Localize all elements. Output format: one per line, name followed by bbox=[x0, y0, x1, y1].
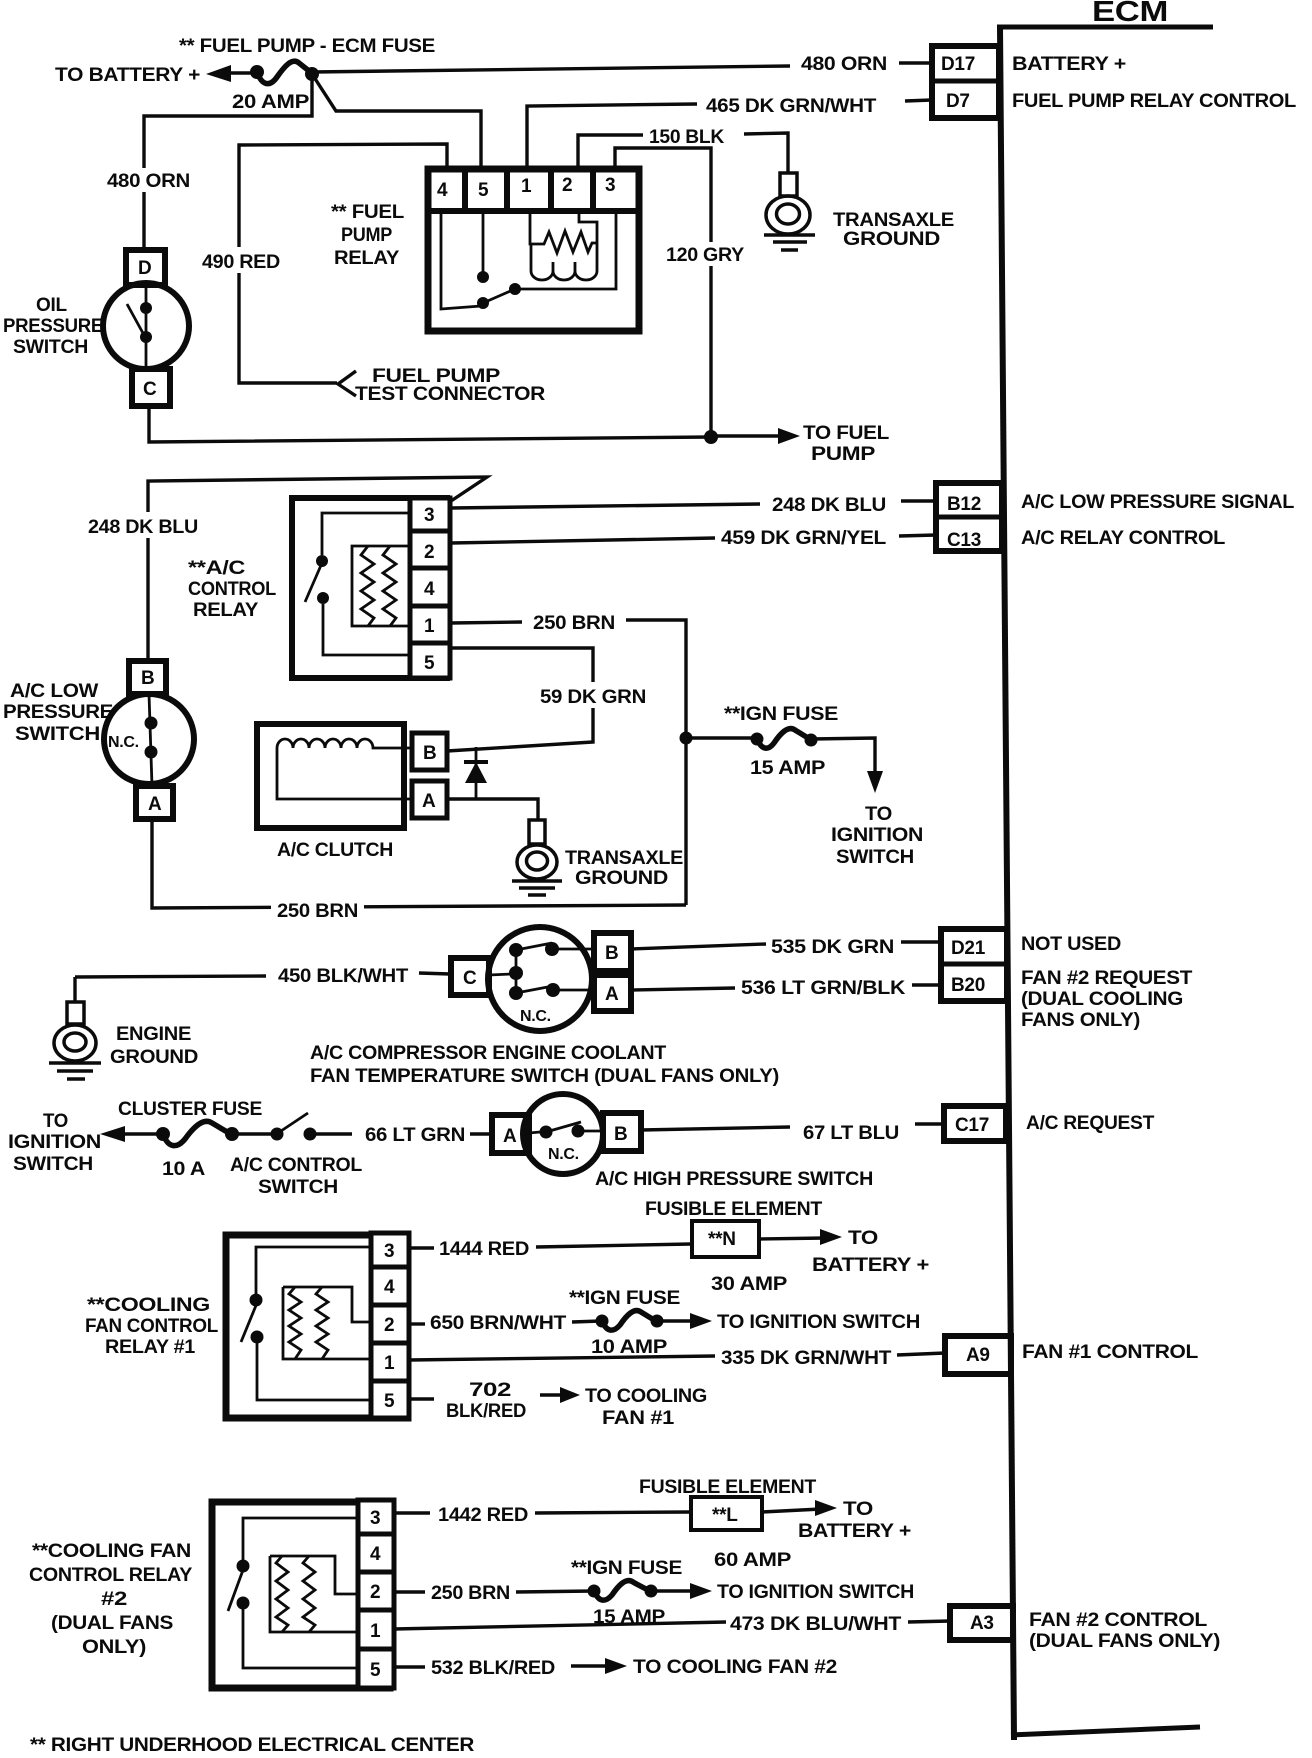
wire 1442 RED to fusible element bbox=[394, 1511, 430, 1514]
svg-text:GROUND: GROUND bbox=[575, 868, 668, 889]
svg-text:A: A bbox=[503, 1126, 517, 1147]
svg-text:CONTROL RELAY: CONTROL RELAY bbox=[29, 1565, 193, 1586]
wire 248 DK BLU from A/C relay pin 3 to low pressure switch B bbox=[148, 477, 487, 658]
fuse F2 IGN FUSE 15 AMP bbox=[751, 733, 764, 746]
ECM connector C17 bbox=[944, 1106, 1006, 1141]
ECM connector D21 / B20 bbox=[938, 929, 1007, 1001]
svg-text:BATTERY +: BATTERY + bbox=[798, 1521, 911, 1542]
svg-text:5: 5 bbox=[424, 653, 435, 674]
A/C low pressure switch bbox=[104, 661, 194, 819]
wire 335 DK GRN/WHT to ECM A9 bbox=[409, 1356, 715, 1360]
svg-text:A/C LOW PRESSURE SIGNAL: A/C LOW PRESSURE SIGNAL bbox=[1021, 492, 1295, 513]
svg-text:GROUND: GROUND bbox=[843, 229, 940, 250]
fuse F5 IGN FUSE 15 AMP bbox=[588, 1585, 601, 1598]
relay K2 internal coil bbox=[352, 546, 410, 626]
svg-text:ECM: ECM bbox=[1092, 0, 1168, 28]
svg-text:D21: D21 bbox=[951, 938, 986, 959]
ECM connector B12 / C13 bbox=[933, 483, 1002, 551]
svg-text:**IGN FUSE: **IGN FUSE bbox=[571, 1558, 682, 1579]
svg-text:536 LT GRN/BLK: 536 LT GRN/BLK bbox=[741, 978, 906, 999]
wire 248 DK BLU to ECM B12 bbox=[451, 504, 760, 508]
wire arrow to ignition switch bbox=[100, 1126, 125, 1142]
wire fuse to relay pin 5 bbox=[312, 74, 481, 168]
cooling fan control relay K3 bbox=[226, 1233, 409, 1418]
svg-text:A: A bbox=[148, 794, 162, 815]
svg-text:2: 2 bbox=[424, 542, 434, 563]
svg-text:A: A bbox=[605, 984, 619, 1005]
transaxle ground (A/C clutch) bbox=[512, 820, 562, 895]
svg-text:1: 1 bbox=[424, 616, 435, 637]
svg-text:1442 RED: 1442 RED bbox=[438, 1505, 528, 1526]
svg-text:**COOLING: **COOLING bbox=[87, 1295, 210, 1316]
svg-text:4: 4 bbox=[437, 180, 448, 201]
svg-text:FAN #2 REQUEST: FAN #2 REQUEST bbox=[1021, 968, 1193, 989]
svg-text:TEST CONNECTOR: TEST CONNECTOR bbox=[355, 384, 546, 405]
svg-text:5: 5 bbox=[384, 1391, 395, 1412]
svg-text:N.C.: N.C. bbox=[548, 1146, 579, 1163]
wire 250 BRN to IGN fuse (fan 2) bbox=[394, 1590, 425, 1593]
svg-text:A/C HIGH PRESSURE SWITCH: A/C HIGH PRESSURE SWITCH bbox=[595, 1169, 873, 1190]
wire 450 BLK/WHT engine ground to switch C bbox=[75, 976, 266, 977]
relay K3 internal switch bbox=[241, 1247, 371, 1400]
svg-text:250 BRN: 250 BRN bbox=[533, 613, 615, 634]
svg-text:GROUND: GROUND bbox=[110, 1047, 198, 1068]
svg-text:20 AMP: 20 AMP bbox=[232, 92, 310, 113]
svg-text:A3: A3 bbox=[970, 1613, 994, 1634]
relay K1 internal switch bbox=[441, 213, 616, 309]
A/C control relay K2 bbox=[292, 498, 450, 678]
transaxle ground (fuel pump) bbox=[764, 173, 815, 250]
svg-text:**IGN FUSE: **IGN FUSE bbox=[569, 1288, 680, 1309]
svg-text:FANS ONLY): FANS ONLY) bbox=[1021, 1010, 1140, 1031]
svg-text:FAN #1 CONTROL: FAN #1 CONTROL bbox=[1022, 1342, 1199, 1363]
svg-text:TO: TO bbox=[865, 804, 892, 825]
wire arrow to cooling fan 1 bbox=[540, 1393, 564, 1396]
svg-text:(DUAL FANS ONLY): (DUAL FANS ONLY) bbox=[1029, 1631, 1220, 1652]
svg-text:A/C CLUTCH: A/C CLUTCH bbox=[277, 840, 393, 861]
svg-text:TO COOLING: TO COOLING bbox=[585, 1386, 707, 1407]
label 248 DK BLU bbox=[84, 512, 204, 538]
fuel pump test connector symbol bbox=[338, 371, 356, 396]
svg-text:IGNITION: IGNITION bbox=[831, 825, 923, 846]
svg-text:PRESSURE: PRESSURE bbox=[3, 702, 113, 723]
wire 150 BLK relay pin 2 to transaxle ground bbox=[578, 135, 643, 168]
wire 480 ORN branch down to oil pressure switch bbox=[144, 74, 312, 249]
svg-text:PUMP: PUMP bbox=[341, 225, 393, 246]
wire clutch A to transaxle ground 2 bbox=[447, 799, 538, 820]
svg-text:2: 2 bbox=[370, 1582, 380, 1603]
svg-text:TO: TO bbox=[43, 1111, 68, 1132]
svg-text:ONLY): ONLY) bbox=[82, 1637, 146, 1658]
svg-text:TO COOLING FAN #2: TO COOLING FAN #2 bbox=[633, 1657, 837, 1678]
svg-text:** FUEL: ** FUEL bbox=[331, 202, 405, 223]
wire 473 DK BLU/WHT to ECM A3 bbox=[394, 1622, 726, 1629]
svg-text:SWITCH: SWITCH bbox=[836, 847, 914, 868]
svg-text:650 BRN/WHT: 650 BRN/WHT bbox=[430, 1313, 567, 1334]
label 59 DK GRN bbox=[536, 682, 650, 708]
svg-text:B20: B20 bbox=[951, 975, 985, 996]
svg-text:A/C LOW: A/C LOW bbox=[10, 681, 98, 702]
fusible element **N bbox=[692, 1221, 759, 1257]
svg-text:59 DK GRN: 59 DK GRN bbox=[540, 687, 646, 708]
svg-text:TO IGNITION SWITCH: TO IGNITION SWITCH bbox=[717, 1582, 914, 1603]
svg-text:3: 3 bbox=[384, 1241, 394, 1262]
svg-text:250 BRN: 250 BRN bbox=[431, 1583, 510, 1604]
svg-text:1: 1 bbox=[521, 176, 532, 197]
wire arrow to fuel pump bbox=[711, 434, 783, 437]
svg-text:SWITCH: SWITCH bbox=[15, 724, 100, 745]
svg-text:473 DK BLU/WHT: 473 DK BLU/WHT bbox=[730, 1614, 902, 1635]
svg-text:ENGINE: ENGINE bbox=[116, 1024, 191, 1045]
svg-text:1: 1 bbox=[384, 1353, 395, 1374]
wire 120 GRY relay pin 3 down to fuel pump junction bbox=[615, 148, 711, 437]
svg-text:PRESSURE: PRESSURE bbox=[3, 316, 103, 337]
svg-text:535 DK GRN: 535 DK GRN bbox=[771, 937, 894, 958]
svg-text:248 DK BLU: 248 DK BLU bbox=[772, 495, 886, 516]
wire arrow to battery bbox=[206, 65, 231, 82]
wire arrow to battery (fan 2) bbox=[762, 1509, 821, 1512]
svg-text:(DUAL FANS: (DUAL FANS bbox=[51, 1613, 173, 1634]
fuel pump relay K1 bbox=[425, 166, 642, 331]
svg-text:TO BATTERY +: TO BATTERY + bbox=[55, 65, 200, 86]
svg-text:(DUAL COOLING: (DUAL COOLING bbox=[1021, 989, 1183, 1010]
svg-text:1: 1 bbox=[370, 1621, 381, 1642]
svg-text:** RIGHT UNDERHOOD ELECTRICAL: ** RIGHT UNDERHOOD ELECTRICAL CENTER bbox=[30, 1735, 475, 1756]
ECM connector A9 bbox=[945, 1336, 1011, 1374]
wire 532 BLK/RED to cooling fan 2 bbox=[394, 1665, 425, 1668]
svg-text:BLK/RED: BLK/RED bbox=[446, 1401, 526, 1422]
svg-text:459 DK GRN/YEL: 459 DK GRN/YEL bbox=[721, 528, 887, 549]
svg-text:RELAY #1: RELAY #1 bbox=[105, 1337, 196, 1358]
wire junction to IGN fuse bbox=[686, 736, 756, 739]
svg-text:SWITCH: SWITCH bbox=[13, 1154, 93, 1175]
svg-text:450 BLK/WHT: 450 BLK/WHT bbox=[278, 966, 409, 987]
svg-text:C17: C17 bbox=[955, 1115, 989, 1136]
relay K3 internal coil bbox=[283, 1287, 371, 1359]
svg-text:335 DK GRN/WHT: 335 DK GRN/WHT bbox=[721, 1348, 892, 1369]
A/C control switch bbox=[271, 1113, 317, 1141]
diode D1 bbox=[464, 747, 488, 799]
wire 535 DK GRN to ECM D21 bbox=[631, 944, 766, 949]
wire 459 DK GRN/YEL to ECM C13 bbox=[451, 538, 715, 543]
fuse F3 CLUSTER FUSE 10 A bbox=[156, 1127, 170, 1141]
svg-text:N.C.: N.C. bbox=[108, 734, 139, 751]
svg-text:120 GRY: 120 GRY bbox=[666, 245, 745, 266]
svg-text:D17: D17 bbox=[941, 54, 975, 75]
svg-text:480 ORN: 480 ORN bbox=[801, 54, 887, 75]
junction node 250 BRN / IGN bbox=[680, 732, 693, 745]
svg-text:15 AMP: 15 AMP bbox=[750, 758, 826, 779]
svg-text:66 LT GRN: 66 LT GRN bbox=[365, 1125, 465, 1146]
svg-text:FUSIBLE ELEMENT: FUSIBLE ELEMENT bbox=[639, 1477, 817, 1498]
svg-text:490 RED: 490 RED bbox=[202, 252, 280, 273]
wire arrow to ignition switch (fan 1) bbox=[657, 1319, 697, 1322]
svg-text:TO IGNITION SWITCH: TO IGNITION SWITCH bbox=[717, 1312, 920, 1333]
svg-text:2: 2 bbox=[562, 175, 572, 196]
svg-text:10 A: 10 A bbox=[162, 1159, 206, 1180]
fusible element **L bbox=[691, 1497, 762, 1530]
svg-text:FAN #2 CONTROL: FAN #2 CONTROL bbox=[1029, 1610, 1208, 1631]
svg-text:C13: C13 bbox=[947, 530, 981, 551]
svg-text:B: B bbox=[605, 943, 618, 964]
svg-text:A/C COMPRESSOR ENGINE COOLANT: A/C COMPRESSOR ENGINE COOLANT bbox=[310, 1043, 667, 1064]
relay K4 internal switch bbox=[228, 1518, 358, 1668]
wire 1444 RED to fusible element bbox=[409, 1246, 434, 1249]
wire 59 DK GRN clutch B to relay pin 5 bbox=[447, 648, 593, 751]
svg-text:**COOLING FAN: **COOLING FAN bbox=[32, 1541, 191, 1562]
svg-text:**L: **L bbox=[712, 1505, 738, 1526]
wire 250 BRN low pressure A to junction bbox=[152, 819, 686, 908]
svg-text:#2: #2 bbox=[101, 1589, 127, 1610]
wire 67 LT BLU to ECM C17 bbox=[641, 1127, 790, 1130]
svg-text:TO: TO bbox=[843, 1499, 873, 1520]
engine coolant fan temperature switch bbox=[451, 927, 631, 1031]
svg-text:67 LT BLU: 67 LT BLU bbox=[803, 1123, 899, 1144]
svg-text:D: D bbox=[138, 258, 151, 279]
wire 650 BRN/WHT to IGN fuse bbox=[409, 1322, 425, 1325]
relay K1 internal coil bbox=[530, 213, 597, 280]
wire to ignition switch with arrow bbox=[811, 738, 875, 777]
label 250 BRN (bottom) bbox=[271, 898, 364, 922]
fuse F1 FUEL PUMP - ECM FUSE 20 AMP bbox=[250, 65, 264, 79]
svg-text:60 AMP: 60 AMP bbox=[714, 1550, 792, 1571]
svg-text:SWITCH: SWITCH bbox=[258, 1177, 338, 1198]
label 480 ORN (vertical wire) bbox=[103, 168, 194, 192]
svg-text:FAN CONTROL: FAN CONTROL bbox=[85, 1316, 219, 1337]
svg-text:3: 3 bbox=[605, 175, 615, 196]
svg-text:FUSIBLE ELEMENT: FUSIBLE ELEMENT bbox=[645, 1199, 823, 1220]
svg-text:C: C bbox=[463, 968, 477, 989]
svg-text:B: B bbox=[423, 743, 436, 764]
svg-text:702: 702 bbox=[469, 1380, 511, 1401]
svg-text:PUMP: PUMP bbox=[811, 444, 876, 465]
wire arrow to battery bbox=[759, 1238, 826, 1239]
svg-text:A: A bbox=[422, 791, 436, 812]
svg-text:532 BLK/RED: 532 BLK/RED bbox=[431, 1658, 555, 1679]
svg-text:BATTERY +: BATTERY + bbox=[1012, 54, 1126, 75]
svg-text:4: 4 bbox=[424, 579, 435, 600]
svg-text:3: 3 bbox=[370, 1508, 380, 1529]
wire 536 LT GRN/BLK to ECM B20 bbox=[631, 988, 735, 990]
svg-text:1444 RED: 1444 RED bbox=[439, 1239, 529, 1260]
svg-text:IGNITION: IGNITION bbox=[8, 1132, 101, 1153]
svg-text:248 DK BLU: 248 DK BLU bbox=[88, 517, 198, 538]
svg-text:TRANSAXLE: TRANSAXLE bbox=[833, 210, 954, 231]
svg-text:480 ORN: 480 ORN bbox=[107, 171, 190, 192]
svg-text:4: 4 bbox=[370, 1544, 381, 1565]
svg-text:D7: D7 bbox=[946, 91, 970, 112]
ECM connector D17 / D7 bbox=[929, 46, 999, 118]
cooling fan control relay K4 bbox=[212, 1500, 394, 1688]
wire 702 BLK/RED to cooling fan 1 bbox=[409, 1397, 434, 1400]
svg-text:5: 5 bbox=[370, 1660, 381, 1681]
svg-text:B12: B12 bbox=[947, 494, 981, 515]
svg-text:B: B bbox=[614, 1124, 627, 1145]
svg-text:A/C RELAY CONTROL: A/C RELAY CONTROL bbox=[1021, 528, 1226, 549]
svg-text:250 BRN: 250 BRN bbox=[277, 901, 358, 922]
svg-text:A/C CONTROL: A/C CONTROL bbox=[230, 1155, 363, 1176]
svg-text:**N: **N bbox=[708, 1229, 736, 1250]
wire 465 DK GRN/WHT from ECM D7 to relay pin 1 bbox=[905, 100, 932, 101]
ECM connector A3 bbox=[950, 1606, 1013, 1640]
svg-text:FAN #1: FAN #1 bbox=[602, 1408, 675, 1429]
svg-text:3: 3 bbox=[424, 505, 434, 526]
svg-text:TO FUEL: TO FUEL bbox=[803, 423, 890, 444]
svg-text:5: 5 bbox=[478, 180, 489, 201]
svg-text:NOT USED: NOT USED bbox=[1021, 934, 1121, 955]
relay K4 internal coil bbox=[270, 1556, 358, 1632]
svg-text:4: 4 bbox=[384, 1277, 395, 1298]
svg-text:** FUEL PUMP - ECM FUSE: ** FUEL PUMP - ECM FUSE bbox=[179, 36, 435, 57]
svg-text:TO: TO bbox=[848, 1228, 878, 1249]
svg-text:C: C bbox=[143, 379, 157, 400]
fuse F4 IGN FUSE 10 AMP bbox=[596, 1315, 609, 1328]
svg-text:**IGN FUSE: **IGN FUSE bbox=[724, 704, 838, 725]
relay K2 internal switch bbox=[305, 513, 410, 655]
wire arrow to ignition switch (fan 2) bbox=[651, 1589, 697, 1592]
svg-text:TRANSAXLE: TRANSAXLE bbox=[565, 848, 683, 869]
svg-text:OIL: OIL bbox=[36, 295, 67, 316]
svg-text:RELAY: RELAY bbox=[334, 248, 400, 269]
svg-text:B: B bbox=[141, 668, 154, 689]
svg-text:2: 2 bbox=[384, 1315, 394, 1336]
svg-text:N.C.: N.C. bbox=[520, 1008, 551, 1025]
wire 250 BRN from relay pin 1 to ignition junction bbox=[451, 622, 522, 623]
svg-text:BATTERY +: BATTERY + bbox=[812, 1255, 929, 1276]
oil pressure switch bbox=[103, 250, 189, 406]
wire fuse to A/C control switch bbox=[232, 1132, 272, 1135]
svg-text:30 AMP: 30 AMP bbox=[711, 1274, 788, 1295]
label 490 RED bbox=[198, 247, 284, 273]
svg-text:A9: A9 bbox=[966, 1345, 990, 1366]
wire oil switch C to fuel pump bbox=[149, 406, 711, 442]
svg-text:150 BLK: 150 BLK bbox=[649, 127, 725, 148]
ECM module outline bbox=[997, 0, 1213, 1740]
wire 66 LT GRN bbox=[310, 1132, 352, 1135]
svg-text:CLUSTER FUSE: CLUSTER FUSE bbox=[118, 1099, 262, 1120]
wire 480 ORN fuse to ECM D17 bbox=[312, 66, 790, 72]
svg-text:RELAY: RELAY bbox=[193, 600, 259, 621]
wire arrow to cooling fan 2 bbox=[571, 1664, 612, 1667]
svg-text:A/C REQUEST: A/C REQUEST bbox=[1026, 1113, 1155, 1134]
svg-text:FUEL PUMP RELAY CONTROL: FUEL PUMP RELAY CONTROL bbox=[1012, 91, 1297, 112]
svg-text:465 DK GRN/WHT: 465 DK GRN/WHT bbox=[706, 96, 877, 117]
junction fuel pump node bbox=[704, 430, 718, 444]
engine ground bbox=[49, 1002, 101, 1079]
wire 490 RED relay pin 4 to test connector bbox=[239, 144, 447, 383]
svg-text:**A/C: **A/C bbox=[188, 558, 246, 579]
svg-text:FAN TEMPERATURE SWITCH (DUAL F: FAN TEMPERATURE SWITCH (DUAL FANS ONLY) bbox=[310, 1066, 779, 1087]
svg-text:SWITCH: SWITCH bbox=[13, 337, 88, 358]
svg-text:10 AMP: 10 AMP bbox=[591, 1337, 668, 1358]
A/C high pressure switch bbox=[492, 1094, 641, 1174]
label 120 GRY bbox=[662, 242, 749, 266]
A/C clutch bbox=[257, 724, 447, 828]
svg-text:CONTROL: CONTROL bbox=[188, 579, 277, 600]
